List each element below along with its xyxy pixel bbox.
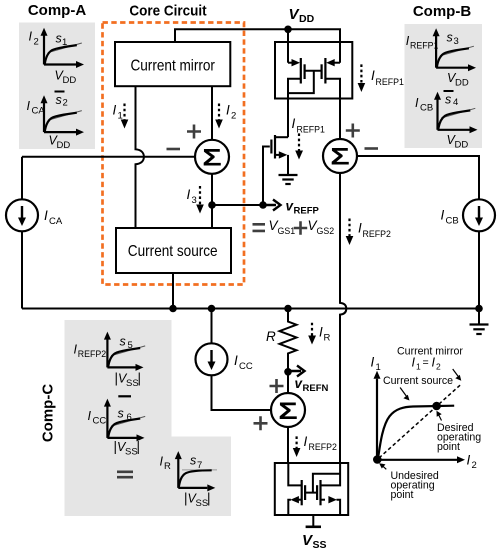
current arrow IREFP2 bottom xyxy=(293,436,301,457)
node vREFP junction xyxy=(259,201,267,209)
label s3 xyxy=(447,31,459,48)
label s2 with bar xyxy=(55,92,68,109)
current source ICB xyxy=(463,199,495,231)
arrow vREFN xyxy=(288,366,305,377)
wire summer2 right input xyxy=(357,156,479,199)
wire vREFN to summer3 xyxy=(287,372,289,393)
node rail dot resistor xyxy=(284,305,292,313)
svg-text:REFN: REFN xyxy=(303,383,329,394)
NMOS pair box xyxy=(275,463,348,515)
label s5 xyxy=(120,335,133,352)
label ICA axis xyxy=(27,99,46,117)
summer 3 xyxy=(271,393,305,427)
graph s3 curve xyxy=(437,48,469,67)
label ICA xyxy=(44,208,63,227)
summer 1 xyxy=(195,140,229,174)
graph s5 curve xyxy=(108,348,140,367)
ground at NMOS M1 xyxy=(279,175,298,184)
node desired operating point dot xyxy=(432,402,441,411)
svg-text:I: I xyxy=(88,409,92,423)
current arrow I2 xyxy=(215,104,223,129)
label s1 xyxy=(56,32,68,49)
label I2 axis xyxy=(29,30,39,48)
transistor left NMOS xyxy=(288,463,305,515)
graph s2 tangent line xyxy=(48,111,82,121)
VDD supply label xyxy=(289,6,315,25)
equation VGS1+VGS2 xyxy=(253,218,335,236)
wire summer3 output down xyxy=(287,427,289,463)
graph s1 tangent line xyxy=(48,43,82,53)
node rail dot ICC xyxy=(208,305,216,313)
label VDD axis 1 xyxy=(55,69,77,87)
svg-text:R: R xyxy=(164,461,171,472)
svg-text:REFP: REFP xyxy=(294,206,320,217)
svg-text:I: I xyxy=(441,208,445,223)
ground right xyxy=(470,309,489,335)
svg-text:2: 2 xyxy=(34,37,39,48)
VSS label xyxy=(302,532,327,550)
svg-text:I: I xyxy=(44,208,48,223)
Comp-C panel background xyxy=(65,320,232,516)
transistor left PMOS xyxy=(288,58,314,93)
wire PMOS gate rail xyxy=(305,70,322,72)
graph s4 curve xyxy=(438,110,470,129)
graph s3 axes xyxy=(433,28,476,71)
svg-text:Comp-B: Comp-B xyxy=(413,3,471,20)
annotation arrow to curve xyxy=(400,388,409,401)
current arrow I1 xyxy=(121,104,129,129)
svg-text:I: I xyxy=(467,453,471,468)
label desired operating point xyxy=(437,422,481,453)
current source block xyxy=(116,228,231,273)
node VDD junction dot xyxy=(284,26,292,34)
current arrow IREFP1 right of box xyxy=(358,64,366,92)
plus sign summer2 top xyxy=(346,124,360,138)
svg-text:6: 6 xyxy=(127,412,132,423)
svg-text:DD: DD xyxy=(57,140,71,151)
label I2 op xyxy=(467,453,477,472)
svg-text:I: I xyxy=(415,96,419,110)
label vREFN xyxy=(295,376,329,394)
current source ICC xyxy=(196,343,228,375)
svg-text:CA: CA xyxy=(32,106,46,117)
svg-text:s: s xyxy=(445,93,451,107)
svg-text:1: 1 xyxy=(118,111,123,122)
wire VDD rail xyxy=(175,29,340,62)
svg-text:s: s xyxy=(118,407,124,421)
minus sign summer1 left xyxy=(167,148,181,151)
wire summer2 output down (hops rail) xyxy=(340,173,346,463)
transistor NMOS M1 xyxy=(263,135,288,205)
wire to vREFP node xyxy=(212,204,263,206)
svg-text:CC: CC xyxy=(239,361,253,372)
label IR axis xyxy=(160,455,172,473)
label IREFP1 inner xyxy=(292,116,325,135)
svg-text:3: 3 xyxy=(192,195,197,206)
svg-text:Σ: Σ xyxy=(330,144,350,171)
transistor right NMOS xyxy=(317,463,340,515)
svg-text:|: | xyxy=(137,439,141,454)
wire current mirror right output to summer 1 xyxy=(211,86,213,140)
Comp-A panel background xyxy=(19,23,95,150)
graph s1 curve xyxy=(45,45,77,64)
wire PMOS right drain down to summer2 xyxy=(339,99,341,140)
svg-text:Comp-C: Comp-C xyxy=(40,384,57,442)
svg-text:I: I xyxy=(160,455,164,469)
svg-text:Current source: Current source xyxy=(128,243,218,260)
svg-text:Current mirror: Current mirror xyxy=(397,346,463,358)
svg-text:I: I xyxy=(226,103,230,118)
svg-text:=: = xyxy=(423,357,429,369)
wire current mirror left output (hops horizontal wire) xyxy=(136,86,144,228)
svg-text:|: | xyxy=(138,371,142,386)
Comp-B panel background xyxy=(405,24,483,148)
op graph y axis xyxy=(374,371,381,460)
graph s4 tangent line xyxy=(441,108,475,118)
svg-text:I: I xyxy=(412,356,416,370)
current arrow IREFP1 inner xyxy=(295,133,303,159)
svg-text:Current mirror: Current mirror xyxy=(130,58,215,75)
svg-text:I: I xyxy=(27,99,31,113)
svg-text:1: 1 xyxy=(62,37,67,48)
graph s7 curve xyxy=(179,470,212,487)
graph s6 tangent line xyxy=(111,416,145,426)
svg-text:CC: CC xyxy=(93,416,107,427)
wire ICC branch xyxy=(211,309,213,344)
svg-text:GS2: GS2 xyxy=(317,226,335,236)
svg-text:DD: DD xyxy=(63,75,77,86)
svg-text:I: I xyxy=(319,325,323,340)
svg-text:CA: CA xyxy=(49,216,63,227)
node summer1 output junction xyxy=(208,201,216,209)
svg-text:Core Circuit: Core Circuit xyxy=(129,3,206,20)
svg-text:I: I xyxy=(371,355,375,370)
label I1 op xyxy=(371,355,381,374)
label s4 with bar xyxy=(444,91,459,108)
current arrow IR xyxy=(308,323,316,345)
svg-text:s: s xyxy=(56,93,62,107)
svg-text:Σ: Σ xyxy=(202,144,222,171)
wire current source output to rail xyxy=(172,273,174,309)
graph s6 axes xyxy=(104,399,145,442)
label ICB xyxy=(441,208,459,227)
svg-text:DD: DD xyxy=(299,13,315,25)
svg-text:|: | xyxy=(207,491,211,506)
arrow vREFP xyxy=(263,200,281,211)
node undesired operating point dot xyxy=(373,455,382,464)
svg-text:R: R xyxy=(324,333,331,344)
wire ICA to rail xyxy=(21,231,23,308)
svg-text:REFP1: REFP1 xyxy=(376,77,404,87)
current arrow I3 xyxy=(196,186,204,214)
svg-text:Current source: Current source xyxy=(383,375,453,387)
graph s2 curve xyxy=(45,113,77,132)
label undesired operating point xyxy=(391,470,439,501)
svg-text:I: I xyxy=(358,221,362,236)
op graph x axis xyxy=(377,456,465,463)
label IREFP2 right xyxy=(358,221,391,240)
svg-text:I: I xyxy=(234,353,238,368)
svg-text:Comp-A: Comp-A xyxy=(28,2,86,19)
graph s4 axes xyxy=(434,92,478,134)
label VDD axis 2 xyxy=(49,134,71,152)
graph s7 axes xyxy=(175,451,216,491)
svg-text:CB: CB xyxy=(420,103,433,114)
PMOS pair box xyxy=(275,42,352,99)
svg-text:4: 4 xyxy=(453,97,458,108)
graph s5 tangent line xyxy=(111,346,145,356)
svg-text:5: 5 xyxy=(128,340,133,351)
summer 2 xyxy=(323,139,357,173)
transistor right PMOS xyxy=(322,58,340,99)
wire ICC to summer3 left input xyxy=(212,375,272,410)
label I2 xyxy=(226,103,236,122)
svg-text:REFP2: REFP2 xyxy=(78,349,106,359)
svg-text:I: I xyxy=(113,103,117,118)
annotation arrow to dashed line xyxy=(453,369,462,381)
svg-text:CB: CB xyxy=(446,216,459,227)
svg-text:DD: DD xyxy=(455,140,469,151)
annotation arrow to undesired dot xyxy=(379,463,386,469)
wire summer1 left input xyxy=(22,156,195,158)
label VDD axis 4 xyxy=(447,133,469,151)
bottom rail xyxy=(22,308,479,310)
label s6 with bar xyxy=(118,396,132,423)
svg-text:R: R xyxy=(266,329,276,344)
label I1 xyxy=(113,103,123,122)
label VSS axis 7 xyxy=(184,491,211,510)
wire left branch down to ICA xyxy=(21,157,23,200)
label VDD axis 3 xyxy=(447,71,469,89)
plus sign summer3 top xyxy=(270,379,284,393)
label VSS axis 5 xyxy=(115,371,142,390)
op graph source curve xyxy=(378,406,454,459)
svg-text:I: I xyxy=(187,187,191,202)
svg-text:Σ: Σ xyxy=(278,398,298,425)
core circuit dashed border xyxy=(103,23,245,285)
annotation arrow to desired dot xyxy=(437,411,442,421)
svg-text:2: 2 xyxy=(63,97,68,108)
label ICC xyxy=(234,353,253,372)
wire ICB to rail xyxy=(478,231,480,308)
svg-text:I: I xyxy=(304,434,308,449)
wire summer1 output down xyxy=(211,174,213,228)
svg-text:s: s xyxy=(120,335,126,349)
svg-text:1: 1 xyxy=(376,362,381,373)
node rail dot current source xyxy=(169,305,177,313)
svg-text:I: I xyxy=(432,356,436,370)
label I3 xyxy=(187,187,197,206)
svg-text:s: s xyxy=(447,31,453,45)
op graph dashed mirror line xyxy=(379,384,462,459)
label IREFP2 axis xyxy=(74,343,107,360)
node rail dot ground right xyxy=(475,305,483,313)
graph s7 asymptote line xyxy=(182,469,217,471)
current arrow IREFP2 right xyxy=(346,219,354,246)
plus sign summer1 top xyxy=(187,125,201,139)
label IREFP1 axis xyxy=(406,34,439,51)
svg-text:DD: DD xyxy=(455,78,469,89)
svg-text:GS1: GS1 xyxy=(278,226,296,236)
svg-text:1: 1 xyxy=(416,362,421,372)
current source ICA xyxy=(6,199,38,231)
svg-text:3: 3 xyxy=(454,36,459,47)
label vREFP xyxy=(286,199,320,217)
label VSS axis 6 xyxy=(114,439,141,458)
wire VDD to left PMOS source xyxy=(287,29,289,62)
svg-text:I: I xyxy=(29,30,33,44)
graph s3 tangent line xyxy=(440,46,474,56)
graph s5 axes xyxy=(104,332,144,371)
svg-text:s: s xyxy=(56,32,62,46)
label IREFP1 right of box xyxy=(371,68,404,87)
svg-text:REFP1: REFP1 xyxy=(410,41,438,51)
svg-text:2: 2 xyxy=(436,362,441,372)
VSS terminal xyxy=(306,515,321,527)
svg-text:REFP2: REFP2 xyxy=(309,442,337,452)
label I1=I2 op xyxy=(412,356,442,372)
minus sign summer2 right xyxy=(365,147,379,150)
svg-text:I: I xyxy=(292,116,296,131)
svg-text:point: point xyxy=(391,489,414,501)
svg-text:2: 2 xyxy=(231,111,236,122)
wire PMOS left drain down to NMOS xyxy=(287,93,289,137)
svg-text:7: 7 xyxy=(197,460,202,471)
label ICC axis xyxy=(88,409,107,427)
svg-text:2: 2 xyxy=(472,460,477,471)
svg-text:s: s xyxy=(190,454,196,468)
graph s2 axes xyxy=(41,95,85,135)
label ICB axis xyxy=(415,96,433,114)
label IR xyxy=(319,325,331,344)
label IREFP2 bottom xyxy=(304,434,337,452)
current mirror block xyxy=(115,42,230,86)
resistor R xyxy=(280,309,297,372)
equals sign Comp-C xyxy=(117,472,133,477)
graph s1 axes xyxy=(41,28,85,68)
svg-text:SS: SS xyxy=(313,539,327,550)
label s7 xyxy=(190,454,202,472)
svg-text:point: point xyxy=(437,441,460,453)
node vREFN junction xyxy=(284,368,292,376)
svg-text:I: I xyxy=(371,68,375,83)
wire NMOS gate rail and diode link xyxy=(305,474,340,493)
svg-text:REFP1: REFP1 xyxy=(297,125,325,135)
graph s6 curve xyxy=(108,419,140,438)
svg-text:REFP2: REFP2 xyxy=(363,229,391,239)
plus sign summer3 left xyxy=(254,416,268,430)
